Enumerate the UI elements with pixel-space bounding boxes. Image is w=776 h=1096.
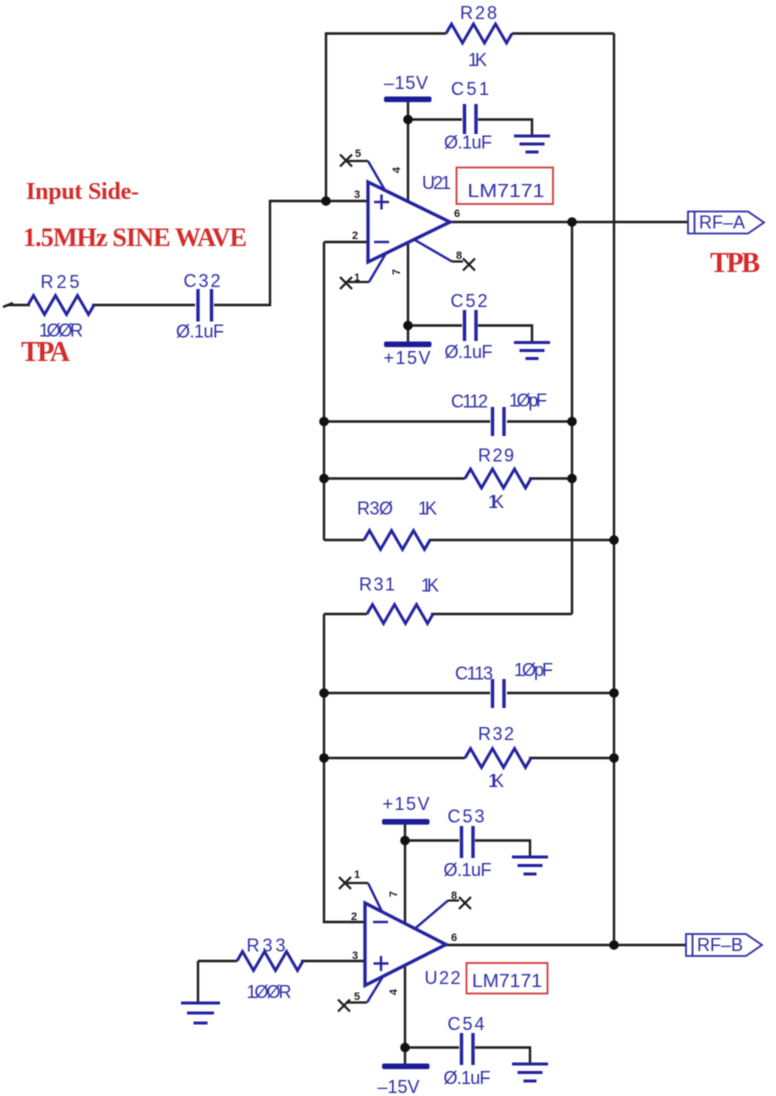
svg-text:RF–B: RF–B <box>697 935 743 955</box>
wire C53 row <box>405 839 459 841</box>
capacitor C32 <box>198 289 212 322</box>
svg-text:Ø.1uF: Ø.1uF <box>176 322 224 342</box>
svg-text:2: 2 <box>352 230 358 242</box>
svg-text:5: 5 <box>355 148 361 160</box>
svg-text:3: 3 <box>354 189 360 201</box>
node R32 left junction <box>319 753 329 763</box>
resistor R33 <box>237 952 303 971</box>
svg-text:1: 1 <box>354 869 360 881</box>
wire C51 row <box>408 118 462 120</box>
ground at C51 <box>514 136 550 152</box>
U22 pin8 no-connect X <box>415 897 471 929</box>
svg-text:3: 3 <box>352 950 358 962</box>
node C113 left junction <box>319 688 329 698</box>
node -15V/C54 junction <box>400 1043 410 1053</box>
svg-text:1: 1 <box>354 272 360 284</box>
wire U22 pin7 (V+ rail to op-amp) <box>404 824 406 924</box>
svg-text:R3Ø: R3Ø <box>357 499 393 519</box>
wire R33 to U22 pin3 <box>301 960 365 962</box>
connector RF-B <box>686 934 762 956</box>
U22 pin1 no-connect X <box>339 877 382 912</box>
power +15V bar (U21 bottom) <box>384 342 432 348</box>
svg-text:C112: C112 <box>451 392 488 412</box>
svg-text:C113: C113 <box>455 664 493 684</box>
svg-text:U22: U22 <box>425 968 461 988</box>
svg-text:LM7171: LM7171 <box>472 971 542 991</box>
svg-text:1ØpF: 1ØpF <box>509 391 547 411</box>
wire R25 to C32 <box>92 304 195 306</box>
wire R31 row <box>324 613 367 615</box>
svg-text:RF–A: RF–A <box>699 213 745 233</box>
svg-text:5: 5 <box>354 991 360 1003</box>
svg-text:–15V: –15V <box>384 73 428 93</box>
wire R30 row <box>324 539 364 541</box>
svg-text:2: 2 <box>351 911 357 923</box>
wire ground to R33 <box>198 960 237 962</box>
svg-text:+15V: +15V <box>384 348 431 368</box>
wire right vertical bus (R28/R30/C113/R32 to RF-B node) <box>613 34 615 946</box>
node U21 output junction <box>567 217 577 227</box>
resistor R31 <box>367 605 433 624</box>
wire left bus A (pin2 net: C112,R29,R30 left ends) <box>323 242 325 540</box>
capacitor C51 <box>465 104 477 134</box>
svg-text:Input Side-: Input Side- <box>26 179 139 205</box>
wire inner right vertical (U21 out to C112,R29,R31) <box>571 222 573 614</box>
wire input stub at left edge <box>3 303 13 307</box>
wire C113 row <box>324 692 490 694</box>
wire U21 pin2 lead <box>324 241 368 243</box>
node +15V/C53 junction <box>400 836 410 846</box>
svg-text:7: 7 <box>391 269 403 275</box>
svg-text:1K: 1K <box>418 499 437 519</box>
node C113 right junction <box>609 688 619 698</box>
node U22 output junction <box>609 940 619 950</box>
wire R29 row <box>324 477 465 479</box>
wire C54 row <box>405 1046 459 1048</box>
wire R28 right lead <box>512 32 614 34</box>
svg-text:Ø.1uF: Ø.1uF <box>444 1068 491 1088</box>
svg-text:4: 4 <box>388 988 400 995</box>
svg-text:R28: R28 <box>460 3 497 23</box>
power -15V bar (top) <box>384 97 432 103</box>
svg-text:7: 7 <box>388 891 400 897</box>
svg-text:R32: R32 <box>478 724 514 744</box>
capacitor C54 <box>462 1033 474 1065</box>
wire R32 row <box>324 757 465 759</box>
wire R33 ground stub <box>197 961 199 1002</box>
svg-text:1K: 1K <box>488 771 504 791</box>
svg-text:LM7171: LM7171 <box>468 181 545 201</box>
svg-text:Ø.1uF: Ø.1uF <box>445 342 493 362</box>
capacitor C112 <box>493 407 505 436</box>
wire C52 row <box>408 324 462 326</box>
ground at R33 <box>181 1003 220 1023</box>
svg-text:Ø.1uF: Ø.1uF <box>444 860 492 880</box>
capacitor C52 <box>465 310 477 341</box>
wire U21 pin7 (op-amp to V+ rail) <box>407 243 409 344</box>
svg-text:Ø.1uF: Ø.1uF <box>444 133 492 153</box>
ground at C53 <box>512 857 548 874</box>
wire C32 to U21 pin3 <box>214 201 368 305</box>
wire U21 pin4 (V- rail to op-amp) <box>407 101 409 202</box>
svg-text:C54: C54 <box>448 1014 485 1034</box>
connector RF-A <box>688 212 764 234</box>
wire U21 output to RF-A <box>450 221 688 223</box>
U21 pin8 no-connect X <box>414 240 475 271</box>
resistor R28 <box>446 24 512 43</box>
svg-text:6: 6 <box>454 208 460 220</box>
svg-text:1K: 1K <box>421 576 439 596</box>
part-number box U21 LM7171 <box>457 168 554 205</box>
svg-text:U21: U21 <box>422 173 451 193</box>
svg-text:1ØØR: 1ØØR <box>247 982 292 1002</box>
svg-text:8: 8 <box>456 250 462 262</box>
node +15V/C52 junction <box>403 321 413 331</box>
svg-text:C53: C53 <box>448 807 485 827</box>
node R29 right junction <box>567 474 577 484</box>
node -15V/C51 junction <box>403 115 413 125</box>
wire R28 left lead from +input node up and right <box>326 34 446 202</box>
svg-text:4: 4 <box>391 166 403 173</box>
svg-text:1.5MHz SINE WAVE: 1.5MHz SINE WAVE <box>23 223 247 252</box>
svg-text:TPB: TPB <box>710 248 760 279</box>
node C112 left junction <box>319 417 329 427</box>
svg-text:+15V: +15V <box>383 794 430 814</box>
svg-text:C32: C32 <box>184 271 221 291</box>
resistor R25 <box>28 296 94 315</box>
svg-text:1ØpF: 1ØpF <box>514 660 553 680</box>
power -15V bar (U22 bottom) <box>382 1064 430 1070</box>
resistor R29 <box>465 469 531 488</box>
wire U22 output to RF-B <box>446 944 686 946</box>
svg-text:R33: R33 <box>247 936 286 956</box>
node R29 left junction <box>319 474 329 484</box>
resistor R30 <box>364 531 430 550</box>
node U21 +input junction <box>321 196 331 206</box>
svg-text:1K: 1K <box>468 50 487 70</box>
ground at C54 <box>512 1064 548 1081</box>
svg-text:1K: 1K <box>488 492 504 512</box>
power +15V bar (U22 top) <box>382 819 430 825</box>
wire C112 row <box>324 420 490 422</box>
capacitor C113 <box>493 679 505 708</box>
svg-text:8: 8 <box>451 890 457 902</box>
wire left bus B (R31,C113,R32 left ends to U22 pin2) <box>324 614 365 922</box>
U21 pin5 no-connect X <box>340 155 385 191</box>
node C112 right junction <box>567 417 577 427</box>
node R30 right junction <box>609 535 619 545</box>
capacitor C53 <box>462 826 474 858</box>
svg-text:–15V: –15V <box>378 1077 420 1096</box>
node R32 right junction <box>609 753 619 763</box>
resistor R32 <box>465 749 531 768</box>
svg-text:C51: C51 <box>451 79 489 99</box>
svg-text:TPA: TPA <box>21 337 71 368</box>
U21 pin1 no-connect X <box>340 253 386 289</box>
svg-text:C52: C52 <box>451 291 488 311</box>
part-number box U22 LM7171 <box>467 963 548 994</box>
op-amp U22 <box>365 903 446 986</box>
svg-text:6: 6 <box>451 932 457 944</box>
U22 pin5 no-connect X <box>338 976 383 1011</box>
svg-text:R29: R29 <box>478 446 514 466</box>
wire U22 pin4 (op-amp to V- rail) <box>404 965 406 1064</box>
op-amp U21 <box>368 182 450 262</box>
svg-text:R25: R25 <box>41 272 80 292</box>
svg-text:R31: R31 <box>359 575 395 595</box>
ground at C52 <box>514 343 550 359</box>
